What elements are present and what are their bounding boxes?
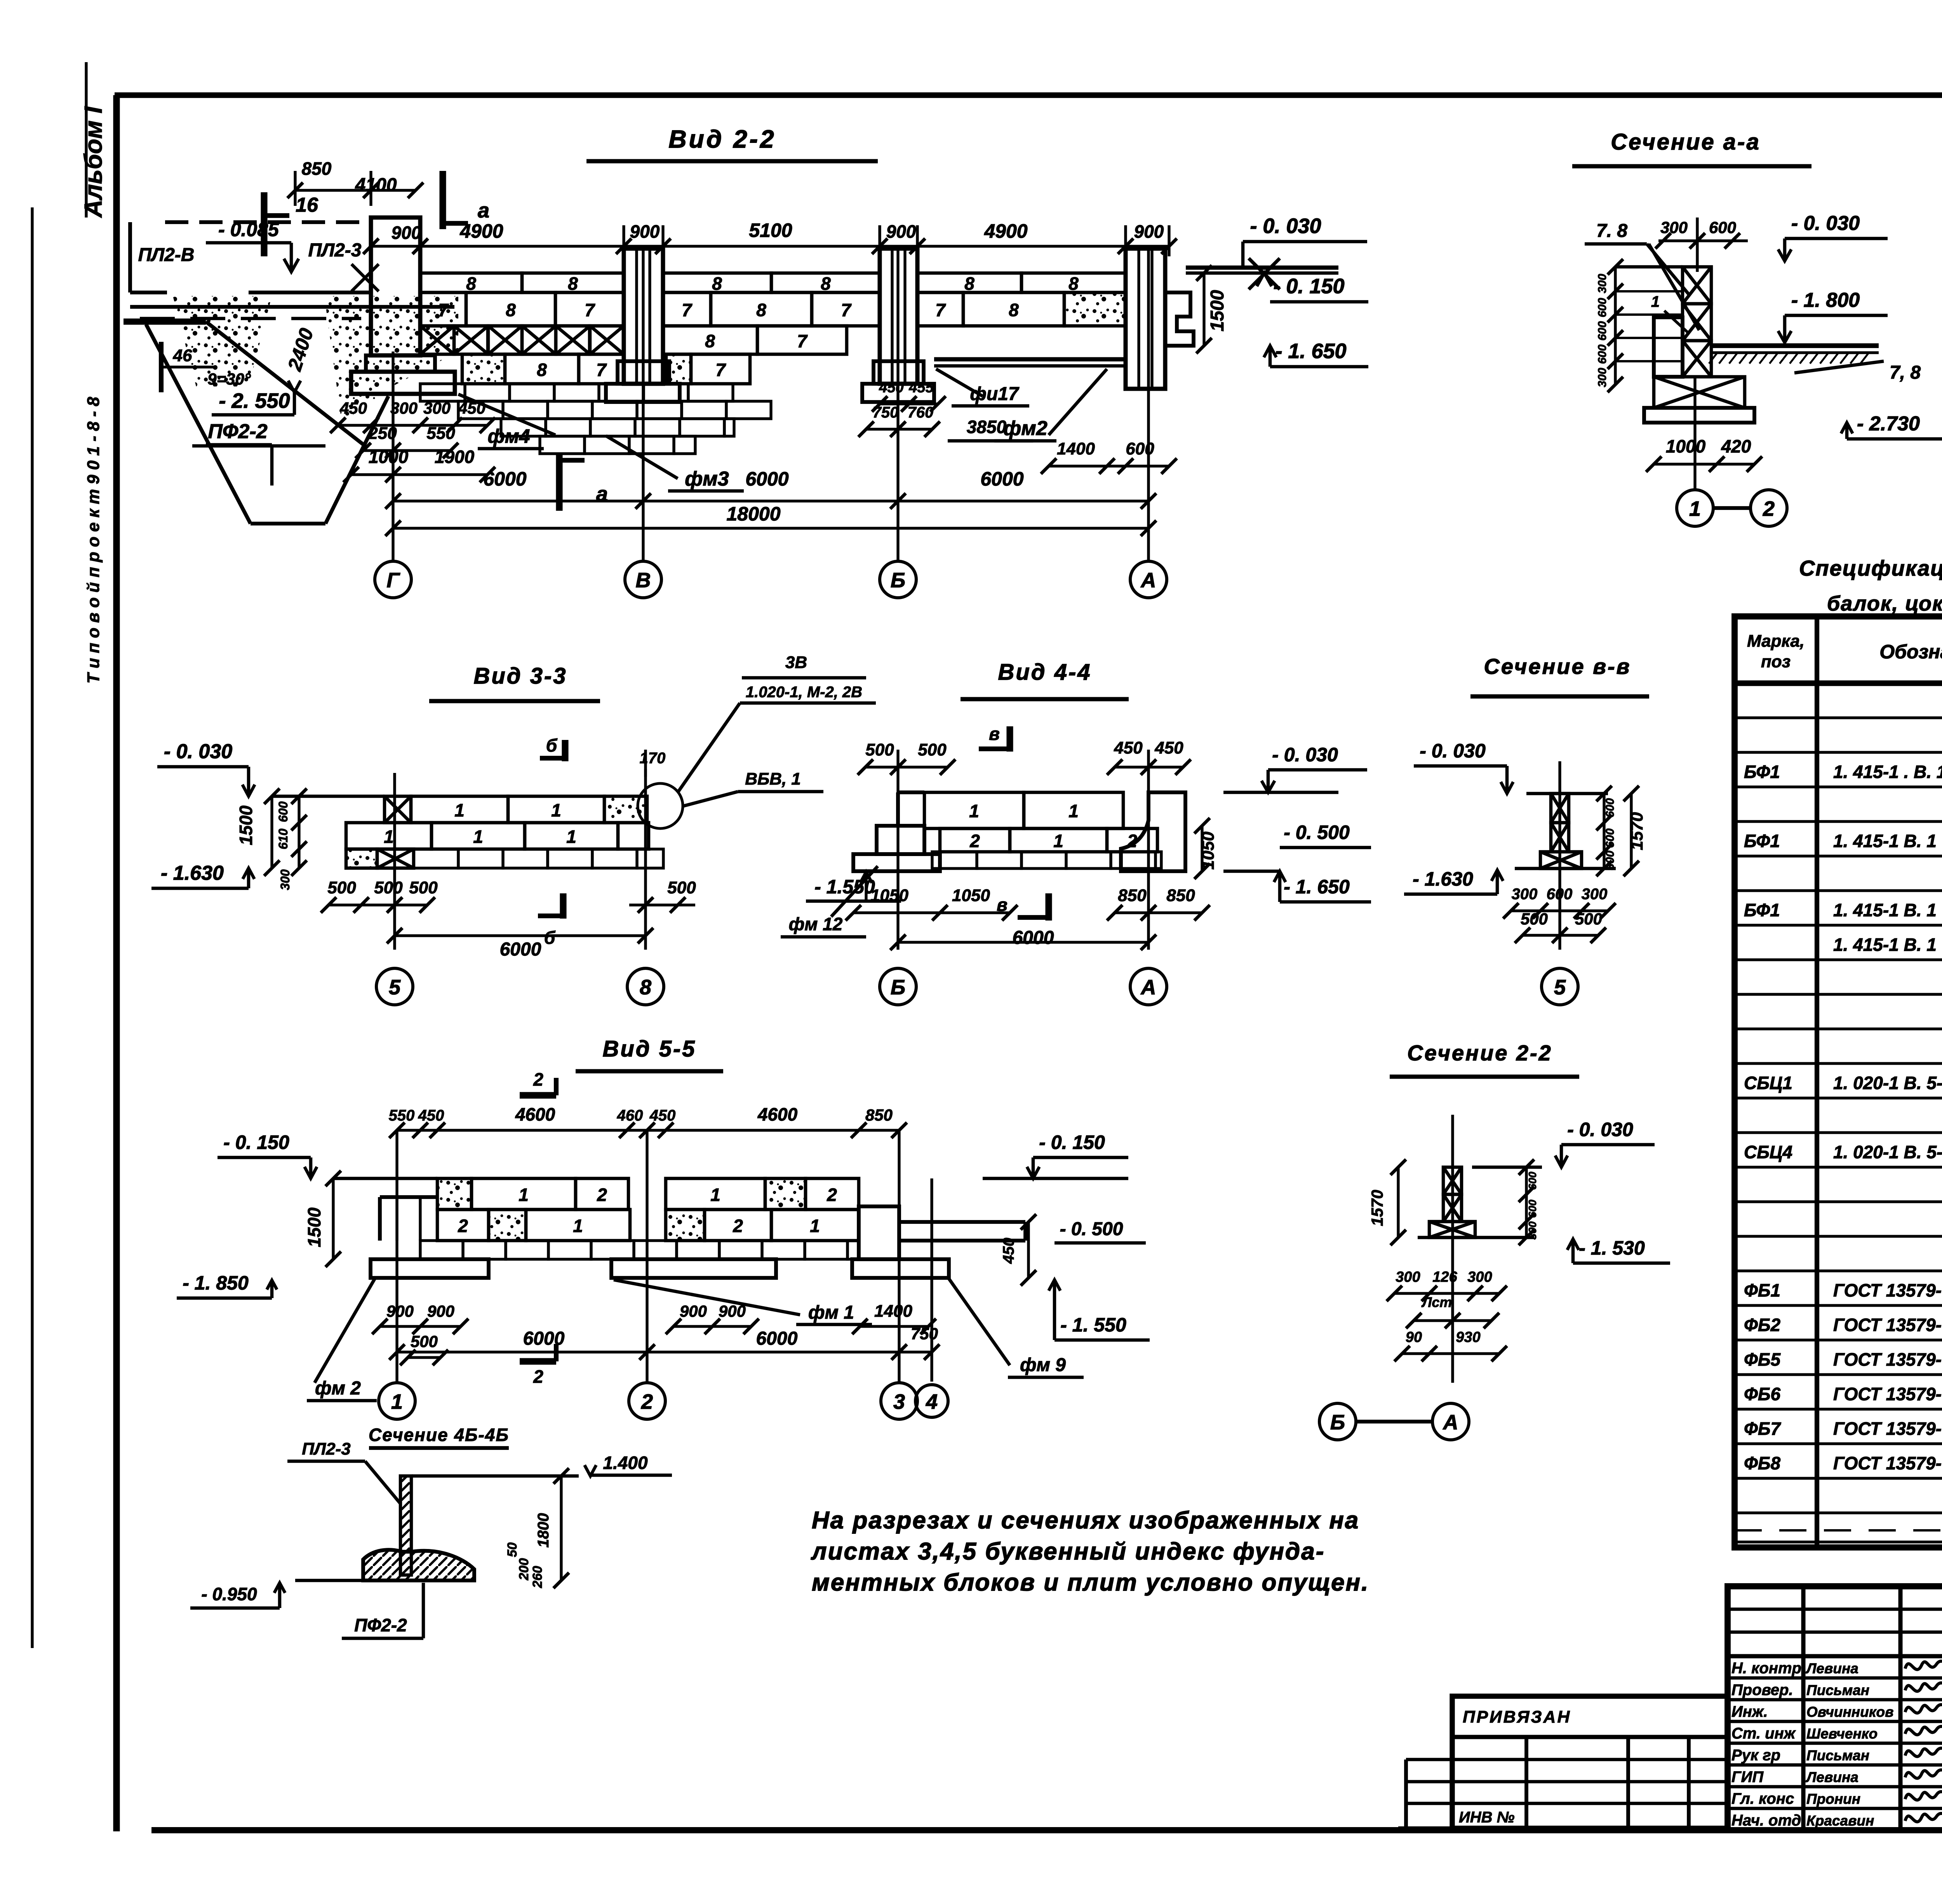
svg-text:Инж.: Инж. xyxy=(1731,1703,1768,1720)
section marker 2 v55 bottom xyxy=(520,1358,556,1364)
axis line вв xyxy=(1558,761,1561,950)
svg-text:Овчинников: Овчинников xyxy=(1806,1704,1893,1720)
svg-text:7: 7 xyxy=(438,300,449,320)
pit concrete speckle left xyxy=(173,296,272,386)
svg-text:1. 415-1 . В. 1: 1. 415-1 . В. 1 xyxy=(1833,762,1942,782)
axis circles Б-А s22 xyxy=(1319,1403,1356,1440)
axis circle А xyxy=(1130,561,1167,598)
footing pads v55 xyxy=(371,1259,489,1278)
svg-text:1: 1 xyxy=(391,1390,403,1413)
svg-text:ГИП: ГИП xyxy=(1731,1768,1764,1786)
svg-text:450: 450 xyxy=(458,399,486,417)
svg-text:300: 300 xyxy=(1582,886,1608,903)
svg-text:500: 500 xyxy=(411,1332,438,1351)
svg-text:Гл. конс: Гл. конс xyxy=(1731,1790,1794,1807)
svg-text:- 0. 030: - 0. 030 xyxy=(164,740,232,763)
axis line А xyxy=(1147,249,1150,561)
svg-text:- 1. 530: - 1. 530 xyxy=(1579,1237,1645,1259)
svg-text:500: 500 xyxy=(374,878,403,897)
svg-text:Т и п о в о й п р о е к т: Т и п о в о й п р о е к т 9 0 1 - 8 - 8 xyxy=(84,397,103,684)
svg-text:900: 900 xyxy=(886,221,916,242)
svg-text:СБЦ4: СБЦ4 xyxy=(1744,1142,1792,1162)
svg-text:1: 1 xyxy=(1651,293,1660,310)
svg-text:Лст: Лст xyxy=(1421,1294,1452,1310)
left step end v55 xyxy=(378,1197,382,1241)
svg-text:900: 900 xyxy=(680,1302,707,1320)
svg-text:7, 8: 7, 8 xyxy=(1890,362,1921,383)
svg-text:- 1. 650: - 1. 650 xyxy=(1275,339,1346,363)
svg-text:Провер.: Провер. xyxy=(1731,1681,1793,1699)
svg-text:ФБ7: ФБ7 xyxy=(1744,1418,1781,1439)
title block small top rows xyxy=(1728,1608,1942,1611)
column X вв xyxy=(1551,794,1569,823)
base X вв xyxy=(1540,852,1582,868)
section marker б v33 bottom xyxy=(560,893,566,919)
detail circle v33 xyxy=(638,783,683,828)
top dimension line Вид 2-2 xyxy=(371,245,1169,247)
svg-text:7: 7 xyxy=(841,300,852,320)
svg-text:в: в xyxy=(997,895,1008,915)
svg-text:8: 8 xyxy=(705,331,715,351)
right stepped wall end xyxy=(1165,292,1194,346)
base X s22 xyxy=(1429,1222,1475,1237)
svg-text:1: 1 xyxy=(384,827,394,847)
svg-text:ФБ2: ФБ2 xyxy=(1744,1315,1780,1335)
svg-text:3: 3 xyxy=(893,1390,905,1413)
callout фм12 xyxy=(831,866,878,917)
svg-text:8: 8 xyxy=(506,300,516,320)
signature Провер. xyxy=(1905,1681,1942,1691)
svg-text:750: 750 xyxy=(911,1324,938,1343)
column X s22 xyxy=(1443,1167,1462,1194)
svg-text:Марка,: Марка, xyxy=(1747,632,1805,651)
svg-text:Левина: Левина xyxy=(1805,1769,1858,1785)
svg-text:- 1.630: - 1.630 xyxy=(1413,868,1473,890)
svg-text:250: 250 xyxy=(368,424,397,443)
svg-text:5: 5 xyxy=(1554,976,1566,999)
svg-text:Обозначение: Обозначение xyxy=(1879,641,1942,663)
axis circle 5 вв xyxy=(1542,968,1578,1005)
svg-text:7: 7 xyxy=(935,300,946,320)
svg-text:Левина: Левина xyxy=(1805,1660,1858,1676)
svg-text:а: а xyxy=(478,199,489,222)
svg-text:- 1. 550: - 1. 550 xyxy=(1060,1314,1126,1336)
svg-text:ПЛ2-3: ПЛ2-3 xyxy=(308,240,362,261)
band row2 v55 xyxy=(437,1210,489,1241)
привязан left extension cells xyxy=(1406,1758,1452,1761)
svg-text:Шевченко: Шевченко xyxy=(1806,1726,1878,1742)
svg-text:1: 1 xyxy=(1068,801,1079,821)
axis line 5 v33 xyxy=(393,773,396,950)
svg-text:90: 90 xyxy=(1406,1329,1422,1345)
section marker 16 top-left xyxy=(261,192,267,256)
svg-text:1. 415-1 В. 1: 1. 415-1 В. 1 xyxy=(1833,935,1937,955)
svg-text:ПРИВЯЗАН: ПРИВЯЗАН xyxy=(1463,1707,1571,1726)
detail post xyxy=(400,1476,411,1575)
title block outer xyxy=(1728,1586,1942,1830)
svg-text:ПЛ2-3: ПЛ2-3 xyxy=(302,1439,350,1458)
svg-text:600: 600 xyxy=(1596,321,1609,341)
axis circle 1 v55 xyxy=(379,1383,415,1419)
section marker б v33 top xyxy=(562,740,568,761)
signature Нач. отд xyxy=(1905,1812,1942,1822)
callout фм1 v55 xyxy=(614,1280,800,1315)
svg-text:- 1.630: - 1.630 xyxy=(161,862,224,884)
svg-text:7: 7 xyxy=(715,360,726,380)
svg-text:450: 450 xyxy=(1000,1238,1017,1264)
svg-text:2: 2 xyxy=(458,1216,468,1236)
svg-text:БФ1: БФ1 xyxy=(1744,762,1780,782)
wall column hatched xyxy=(1683,267,1711,304)
axis line Б xyxy=(896,249,899,561)
svg-text:- 2. 550: - 2. 550 xyxy=(219,389,290,412)
svg-text:300: 300 xyxy=(278,869,292,890)
svg-text:балок, цокольных панелей, блок: балок, цокольных панелей, блоков стен по… xyxy=(1827,592,1942,615)
callout фм9 v55 xyxy=(949,1279,1010,1365)
band row2 v44 xyxy=(940,828,1010,852)
svg-text:260: 260 xyxy=(530,1566,545,1589)
svg-text:Сечение в-в: Сечение в-в xyxy=(1484,654,1631,679)
svg-text:4900: 4900 xyxy=(984,220,1027,242)
svg-text:фм 1: фм 1 xyxy=(808,1302,854,1323)
svg-text:Сечение 4Б-4Б: Сечение 4Б-4Б xyxy=(369,1425,509,1445)
svg-text:ФБ5: ФБ5 xyxy=(1744,1349,1781,1370)
svg-text:1: 1 xyxy=(969,801,979,821)
svg-text:8: 8 xyxy=(1068,273,1079,294)
axis circle В xyxy=(625,561,661,598)
svg-text:1800: 1800 xyxy=(535,1513,552,1548)
title block label rows xyxy=(1728,1676,1942,1680)
svg-text:300: 300 xyxy=(1396,1269,1420,1285)
svg-text:300: 300 xyxy=(390,399,418,417)
svg-text:300: 300 xyxy=(1526,1221,1538,1239)
signature Гл. конс xyxy=(1905,1790,1942,1800)
callout фм3 xyxy=(606,436,678,479)
svg-text:А: А xyxy=(1443,1411,1458,1434)
svg-text:4600: 4600 xyxy=(515,1104,555,1124)
drawing frame xyxy=(113,95,120,1831)
svg-text:7: 7 xyxy=(585,300,595,320)
svg-text:А: А xyxy=(1140,569,1156,592)
brick steps between Г and В xyxy=(420,384,465,401)
svg-text:ИНВ №: ИНВ № xyxy=(1459,1809,1515,1826)
section marker а bottom xyxy=(556,453,562,511)
svg-text:450: 450 xyxy=(879,379,903,396)
svg-text:1: 1 xyxy=(519,1185,529,1205)
svg-text:ПФ2-2: ПФ2-2 xyxy=(354,1615,407,1635)
axis circle 8 v33 xyxy=(627,968,664,1005)
svg-text:БФ1: БФ1 xyxy=(1744,900,1780,920)
svg-text:455: 455 xyxy=(908,379,934,396)
svg-text:900: 900 xyxy=(630,221,660,242)
привязан table xyxy=(1452,1696,1728,1828)
margin vertical line xyxy=(31,207,33,1648)
pier Г xyxy=(371,218,420,355)
svg-text:930: 930 xyxy=(1456,1329,1480,1345)
footing X-hatch aa xyxy=(1654,377,1745,408)
svg-text:поз: поз xyxy=(1761,652,1791,671)
svg-text:БФ1: БФ1 xyxy=(1744,831,1780,851)
svg-text:6000: 6000 xyxy=(1013,928,1054,948)
svg-text:фм 12: фм 12 xyxy=(789,914,843,934)
svg-text:18000: 18000 xyxy=(726,503,780,525)
svg-text:8: 8 xyxy=(712,273,722,294)
svg-text:- 0. 030: - 0. 030 xyxy=(1791,212,1860,235)
svg-text:550: 550 xyxy=(389,1107,415,1124)
svg-text:Вид 5-5: Вид 5-5 xyxy=(602,1036,696,1062)
slab lines right of А xyxy=(1186,266,1338,270)
svg-text:- 0. 500: - 0. 500 xyxy=(1284,821,1350,843)
svg-text:- 0.085: - 0.085 xyxy=(218,219,279,240)
axis line Г xyxy=(392,352,394,561)
svg-text:16: 16 xyxy=(296,194,318,216)
svg-text:600: 600 xyxy=(1526,1171,1538,1190)
svg-text:Вид 3-3: Вид 3-3 xyxy=(473,663,567,689)
svg-text:1500: 1500 xyxy=(236,805,256,845)
svg-text:760: 760 xyxy=(908,404,934,421)
svg-text:1: 1 xyxy=(710,1185,720,1205)
svg-text:На разрезах и сечениях изображ: На разрезах и сечениях изображенных на xyxy=(812,1507,1359,1534)
band row3 v33 xyxy=(346,849,377,868)
svg-text:500: 500 xyxy=(1575,910,1602,928)
svg-text:850: 850 xyxy=(865,1106,893,1124)
svg-text:46: 46 xyxy=(173,346,192,365)
svg-text:2: 2 xyxy=(827,1185,837,1205)
svg-text:7: 7 xyxy=(596,360,607,380)
axis leader circles 1 2 xyxy=(1693,377,1696,490)
svg-text:ФБ1: ФБ1 xyxy=(1744,1280,1780,1300)
svg-text:900: 900 xyxy=(392,223,421,243)
svg-text:3850: 3850 xyxy=(967,417,1007,437)
svg-text:1900: 1900 xyxy=(435,447,475,467)
svg-text:Письман: Письман xyxy=(1806,1682,1869,1698)
svg-text:600: 600 xyxy=(1604,828,1617,848)
svg-text:1400: 1400 xyxy=(874,1302,912,1321)
axis circle 5 v33 xyxy=(376,968,413,1005)
level tick x xyxy=(352,264,379,291)
svg-text:Пронин: Пронин xyxy=(1806,1791,1860,1807)
svg-text:- 0. 150: - 0. 150 xyxy=(223,1131,289,1153)
pier В base xyxy=(618,361,669,384)
svg-text:5100: 5100 xyxy=(749,219,792,241)
right dims s22 xyxy=(1525,1167,1528,1237)
svg-text:В: В xyxy=(636,569,651,592)
svg-text:8: 8 xyxy=(964,273,974,294)
svg-text:4: 4 xyxy=(926,1390,938,1413)
callout фм4 xyxy=(458,394,555,435)
svg-text:2: 2 xyxy=(597,1185,607,1205)
band row2 v33 xyxy=(346,823,432,849)
svg-text:300: 300 xyxy=(1596,274,1609,293)
svg-text:Б: Б xyxy=(1330,1411,1345,1434)
axis circle Б v44 xyxy=(880,968,916,1005)
svg-text:300: 300 xyxy=(1604,851,1617,870)
svg-text:ГОСТ 13579-78: ГОСТ 13579-78 xyxy=(1833,1349,1942,1370)
pier В xyxy=(624,249,663,384)
svg-text:листах 3,4,5 буквенный индекс: листах 3,4,5 буквенный индекс фунда- xyxy=(811,1538,1325,1565)
callout фм2 v55 xyxy=(315,1279,375,1383)
svg-text:1. 415-1 В. 1: 1. 415-1 В. 1 xyxy=(1833,900,1937,920)
svg-text:6000: 6000 xyxy=(500,939,541,960)
svg-text:ГОСТ 13579-78: ГОСТ 13579-78 xyxy=(1833,1418,1942,1439)
svg-text:500: 500 xyxy=(667,878,696,897)
svg-text:1570: 1570 xyxy=(1368,1190,1386,1226)
svg-text:- 0. 030: - 0. 030 xyxy=(1250,214,1321,238)
wall band row2 blocks 7-8-7 xyxy=(420,292,466,326)
svg-text:- 0. 030: - 0. 030 xyxy=(1420,740,1486,762)
svg-text:ГОСТ 13579-78: ГОСТ 13579-78 xyxy=(1833,1280,1942,1300)
svg-text:850: 850 xyxy=(1166,886,1195,905)
section marker 2 v55 top xyxy=(520,1092,556,1098)
pier Б base xyxy=(874,361,924,384)
svg-text:- 2.730: - 2.730 xyxy=(1857,412,1920,435)
svg-text:б: б xyxy=(544,928,556,948)
svg-text:ФБ8: ФБ8 xyxy=(1744,1453,1780,1473)
axis line 2 v55 xyxy=(646,1130,648,1382)
svg-text:1500: 1500 xyxy=(304,1207,324,1247)
axis circle 4 v55 xyxy=(915,1385,948,1417)
svg-text:2: 2 xyxy=(641,1390,653,1413)
svg-text:1: 1 xyxy=(473,827,483,847)
band row1 v33 xyxy=(385,796,411,823)
svg-text:8: 8 xyxy=(568,273,578,294)
svg-text:СБЦ1: СБЦ1 xyxy=(1744,1073,1792,1093)
svg-text:- 0. 030: - 0. 030 xyxy=(1567,1119,1633,1140)
axis line Б v44 xyxy=(896,750,899,950)
svg-text:фм2: фм2 xyxy=(1003,417,1047,440)
pier Б xyxy=(880,249,917,384)
svg-text:1: 1 xyxy=(1689,497,1701,520)
row3 blocks В-Б xyxy=(663,326,757,354)
svg-text:5: 5 xyxy=(389,976,401,999)
right step extension v55 xyxy=(859,1206,899,1259)
svg-text:1000: 1000 xyxy=(369,447,409,467)
svg-text:ГОСТ 13579-78: ГОСТ 13579-78 xyxy=(1833,1453,1942,1473)
axis circle 2 v55 xyxy=(629,1383,665,1419)
svg-text:ПФ2-2: ПФ2-2 xyxy=(208,420,267,443)
svg-text:6000: 6000 xyxy=(980,468,1023,490)
svg-text:450: 450 xyxy=(418,1107,444,1124)
svg-text:1: 1 xyxy=(551,800,561,820)
svg-text:- 0. 150: - 0. 150 xyxy=(1273,275,1344,298)
svg-text:1400: 1400 xyxy=(1057,439,1095,458)
svg-text:300: 300 xyxy=(1512,886,1538,903)
svg-text:900: 900 xyxy=(719,1302,746,1320)
detail mound xyxy=(363,1550,474,1580)
signature Ст. инж xyxy=(1905,1725,1942,1735)
row4 blocks xyxy=(462,354,505,384)
svg-text:8: 8 xyxy=(756,300,766,320)
wall corner block xyxy=(1654,317,1683,377)
svg-text:850: 850 xyxy=(1118,886,1147,905)
svg-text:600: 600 xyxy=(1709,218,1736,237)
svg-text:3В: 3В xyxy=(785,653,807,672)
svg-text:фи17: фи17 xyxy=(970,384,1019,404)
svg-text:Б: Б xyxy=(891,976,905,999)
svg-text:450: 450 xyxy=(649,1107,676,1124)
svg-text:8: 8 xyxy=(466,273,476,294)
axis line 8 v33 xyxy=(644,769,647,950)
title block verticals left part xyxy=(1801,1586,1806,1830)
floor slab line aa xyxy=(1711,343,1879,348)
svg-text:2: 2 xyxy=(533,1366,543,1387)
svg-text:600: 600 xyxy=(1126,439,1154,458)
svg-text:1050: 1050 xyxy=(952,886,990,905)
svg-text:А: А xyxy=(1140,976,1156,999)
section marker а top xyxy=(439,171,446,229)
band row3 bricks v55 xyxy=(420,1241,463,1259)
svg-text:Вид 4-4: Вид 4-4 xyxy=(998,660,1091,685)
svg-text:Вид 2-2: Вид 2-2 xyxy=(668,125,776,153)
svg-text:300: 300 xyxy=(1660,218,1688,237)
svg-text:4600: 4600 xyxy=(757,1104,798,1124)
svg-text:4900: 4900 xyxy=(459,220,503,242)
callout фм2 xyxy=(1049,369,1107,435)
svg-text:Сечение а-а: Сечение а-а xyxy=(1611,129,1760,155)
svg-text:900: 900 xyxy=(386,1302,414,1320)
svg-text:б: б xyxy=(546,735,558,755)
svg-text:1. 020-1 В. 5-1: 1. 020-1 В. 5-1 xyxy=(1833,1073,1942,1093)
svg-text:1: 1 xyxy=(566,827,576,847)
spec table dashed lines xyxy=(1735,1408,1942,1410)
svg-text:7: 7 xyxy=(682,300,693,320)
svg-text:8: 8 xyxy=(640,976,651,999)
svg-text:Нач. отд: Нач. отд xyxy=(1731,1812,1801,1829)
svg-text:8: 8 xyxy=(537,360,547,380)
svg-text:1: 1 xyxy=(454,800,465,820)
svg-text:126: 126 xyxy=(1432,1269,1457,1285)
axis line В xyxy=(642,249,644,561)
svg-text:600: 600 xyxy=(276,801,290,822)
pit excavation outline xyxy=(206,322,365,446)
svg-text:420: 420 xyxy=(1721,436,1751,456)
axis circle Б xyxy=(880,561,916,598)
pit concrete speckle right xyxy=(324,296,458,423)
section marker в v44 top xyxy=(1006,726,1013,752)
axis circle А v44 xyxy=(1130,968,1167,1005)
svg-text:450: 450 xyxy=(339,399,367,417)
svg-text:фм 9: фм 9 xyxy=(1020,1355,1066,1375)
svg-text:300: 300 xyxy=(423,399,451,417)
svg-text:8: 8 xyxy=(821,273,831,294)
svg-text:500: 500 xyxy=(865,740,894,759)
svg-text:9=30°: 9=30° xyxy=(207,370,251,388)
svg-text:900: 900 xyxy=(427,1302,454,1320)
svg-text:7: 7 xyxy=(797,331,808,351)
svg-text:ФБ6: ФБ6 xyxy=(1744,1384,1780,1404)
svg-text:6000: 6000 xyxy=(745,468,788,490)
svg-text:ГОСТ 13579-78: ГОСТ 13579-78 xyxy=(1833,1384,1942,1404)
svg-text:500: 500 xyxy=(1521,910,1548,928)
svg-text:ГОСТ 13579-78: ГОСТ 13579-78 xyxy=(1833,1315,1942,1335)
signature Рук гр xyxy=(1905,1746,1942,1756)
spec table grid xyxy=(1735,616,1942,1547)
svg-text:1: 1 xyxy=(1053,831,1063,851)
svg-text:300: 300 xyxy=(1467,1269,1492,1285)
svg-text:Ст. инж: Ст. инж xyxy=(1731,1725,1796,1742)
svg-text:600: 600 xyxy=(1596,345,1609,364)
svg-text:ментных блоков и плит условно: ментных блоков и плит условно опущен. xyxy=(812,1569,1369,1596)
band row1 v44 xyxy=(924,792,1024,828)
svg-text:550: 550 xyxy=(426,424,455,443)
svg-text:6000: 6000 xyxy=(756,1328,798,1349)
pier А xyxy=(1126,249,1165,389)
svg-text:850: 850 xyxy=(302,158,332,179)
svg-text:900: 900 xyxy=(1134,221,1164,242)
foundation beam Б-А xyxy=(934,357,1126,362)
wall band X-hatch row xyxy=(420,326,454,354)
svg-text:6000: 6000 xyxy=(523,1328,565,1349)
